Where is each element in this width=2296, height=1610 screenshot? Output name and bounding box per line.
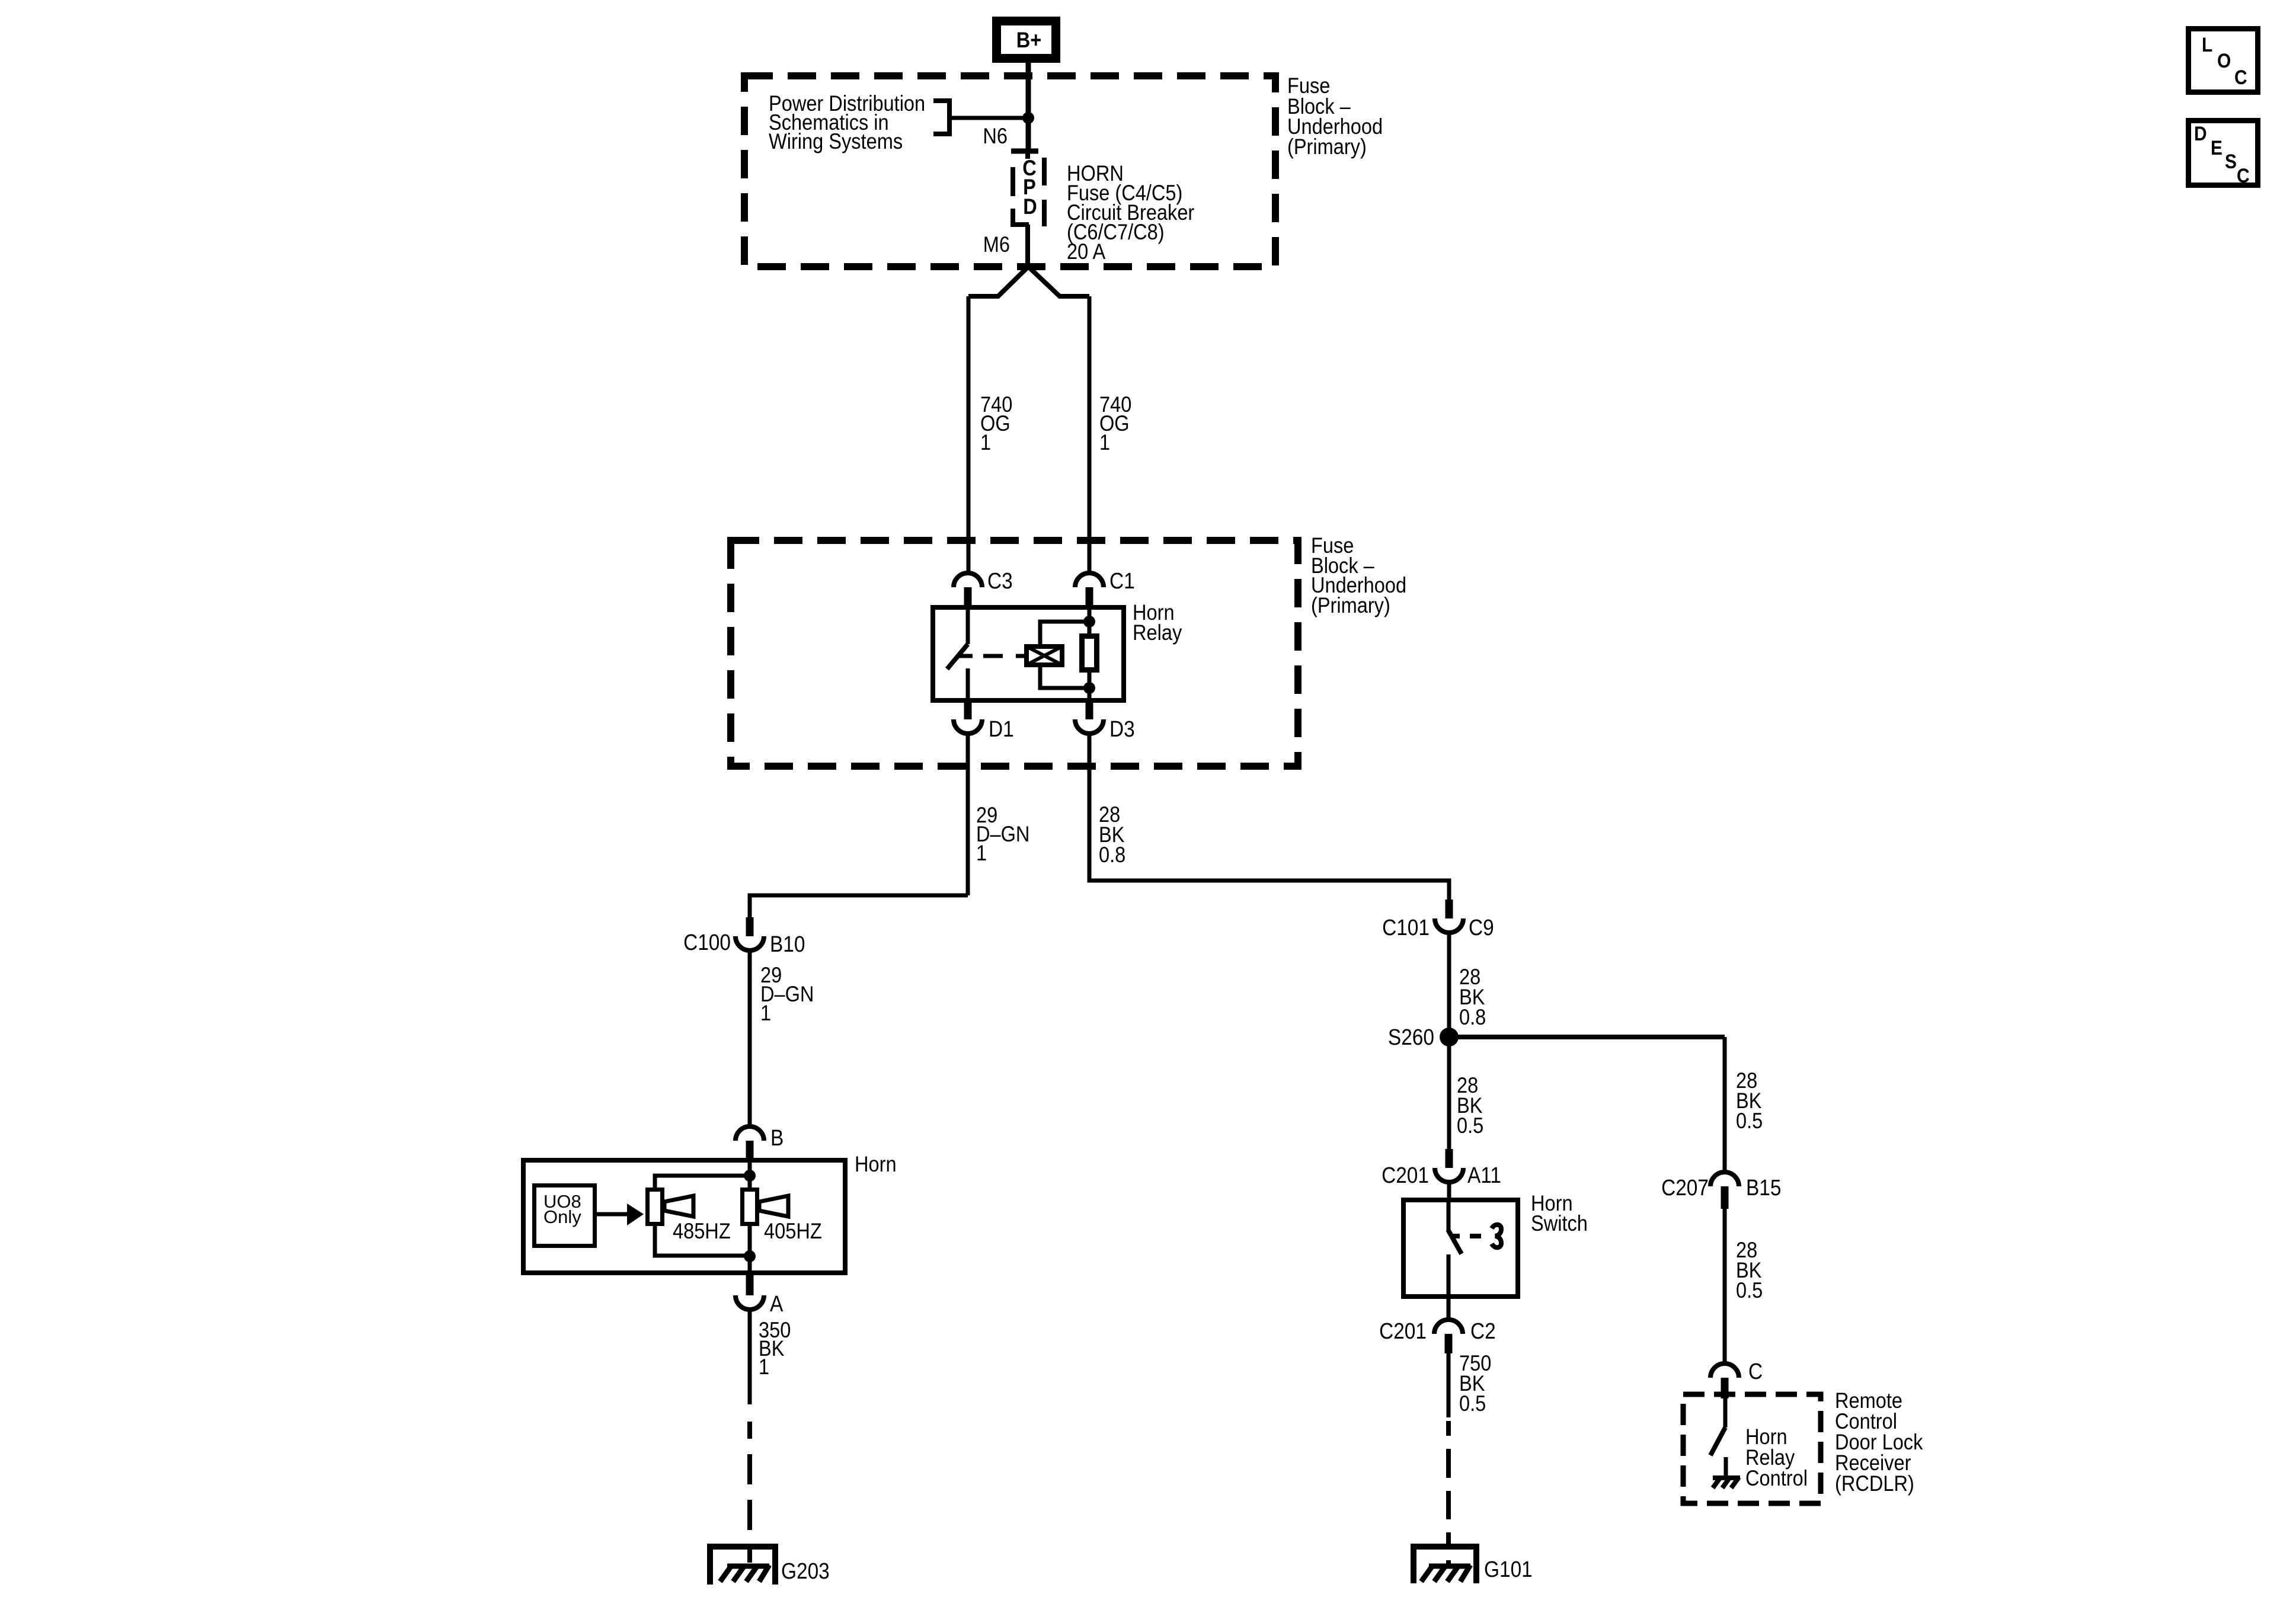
svg-text:B15: B15: [1746, 1175, 1781, 1200]
label 28 BK 0.5 below S260: [1457, 1073, 1483, 1138]
node dot horn top: [744, 1170, 756, 1182]
connector C207/B15 (arc + pin stub): [1710, 1172, 1739, 1209]
svg-text:C: C: [2234, 66, 2247, 88]
svg-text:C: C: [2237, 164, 2250, 187]
relay switch blade: [947, 644, 968, 669]
label Fuse Block Underhood (Primary) top: [1287, 73, 1383, 159]
svg-text:1: 1: [1099, 430, 1110, 454]
label Power Distribution Schematics in Wiring Systems: [769, 91, 925, 153]
svg-text:A: A: [770, 1291, 783, 1316]
svg-text:C9: C9: [1469, 915, 1494, 940]
svg-text:(Primary): (Primary): [1287, 135, 1367, 159]
RCDLR lower contact: [1724, 1457, 1728, 1477]
ground G101: [1414, 1547, 1476, 1583]
svg-text:B+: B+: [1016, 28, 1042, 52]
connector B (arc + pin stub): [736, 1126, 764, 1160]
wire V split right leg: [1028, 267, 1089, 296]
UO8 Only box: [535, 1186, 595, 1246]
horn switch linkage dashes: [1453, 1234, 1460, 1238]
svg-text:1: 1: [980, 430, 991, 454]
svg-text:G203: G203: [781, 1558, 830, 1583]
svg-text:C201: C201: [1379, 1318, 1427, 1343]
svg-text:C101: C101: [1382, 915, 1430, 940]
label 740 OG 1 right: [1099, 392, 1131, 454]
relay linkage dashes: [983, 654, 1003, 658]
wire from power-distribution bracket to junction: [949, 116, 1028, 120]
relay coil box with X: [1027, 646, 1062, 665]
RCDLR driver wire: [1723, 1397, 1728, 1427]
svg-text:D: D: [1023, 194, 1037, 219]
svg-text:N6: N6: [983, 124, 1008, 148]
arrow UO8 to 485HZ horn: [597, 1204, 644, 1225]
B+ battery feed box: [997, 21, 1056, 59]
svg-text:D: D: [2194, 122, 2207, 145]
svg-text:M6: M6: [983, 232, 1010, 257]
svg-text:A11: A11: [1467, 1163, 1501, 1188]
label 28 BK 0.5 right lower: [1736, 1238, 1763, 1302]
horn speaker icon 405: [759, 1196, 788, 1217]
svg-text:(Primary): (Primary): [1311, 593, 1390, 617]
svg-text:L: L: [2202, 33, 2212, 56]
svg-text:0.8: 0.8: [1459, 1005, 1486, 1029]
wire right 740 OG down to C1: [1088, 296, 1092, 573]
wire 405 bottom: [748, 1224, 752, 1273]
label Fuse Block Underhood (Primary) middle: [1311, 533, 1406, 617]
svg-text:1: 1: [976, 841, 987, 865]
label 350 BK 1: [759, 1318, 791, 1379]
resistor horn 485HZ: [648, 1190, 663, 1224]
wire S260 branch down to C207: [1723, 1037, 1727, 1172]
wire B into 405 resistor: [748, 1160, 752, 1189]
horn switch upper contact: [1447, 1200, 1451, 1230]
svg-text:O: O: [2217, 49, 2231, 72]
svg-text:0.5: 0.5: [1459, 1391, 1486, 1416]
svg-text:C1: C1: [1109, 568, 1135, 593]
svg-text:20 A: 20 A: [1067, 239, 1106, 264]
label 29 D-GN 1 lower: [760, 963, 814, 1025]
svg-text:0.5: 0.5: [1736, 1278, 1763, 1302]
label HORN Fuse (C4/C5) Circuit Breaker (C6/C7/C8) 20 A: [1067, 161, 1195, 264]
connector C (arc + pin stub): [1710, 1363, 1739, 1398]
relay internal wire resistor to D3: [1088, 670, 1092, 700]
bracket for Power Distribution reference: [933, 101, 949, 134]
wire 485 bottom: [655, 1224, 750, 1256]
relay coil bottom lead: [1040, 667, 1089, 688]
svg-text:E: E: [2211, 136, 2223, 159]
RCDLR switch blade: [1710, 1427, 1725, 1455]
svg-text:D1: D1: [989, 716, 1014, 741]
svg-text:D3: D3: [1109, 716, 1135, 741]
wire B+ stem down to fuse: [1026, 63, 1031, 151]
svg-text:485HZ: 485HZ: [673, 1219, 731, 1243]
label 28 BK 0.8 at C9: [1459, 965, 1486, 1029]
svg-text:C100: C100: [683, 930, 731, 955]
wire M6 down to split: [1025, 225, 1030, 268]
wire D3 down and jog right: [1089, 734, 1449, 904]
wire C9 down to S260: [1447, 933, 1451, 1149]
relay switch contact from C3: [966, 607, 970, 644]
svg-text:0.5: 0.5: [1457, 1113, 1483, 1138]
horn speaker icon 485: [664, 1196, 693, 1217]
LOC icon box: [2189, 29, 2258, 92]
svg-text:Wiring Systems: Wiring Systems: [769, 129, 903, 153]
wire A down: [748, 1310, 752, 1404]
label Horn Relay Control: [1745, 1425, 1808, 1490]
wire horn top branch: [655, 1176, 750, 1189]
connector D1 (pin stub + arc): [954, 703, 982, 734]
svg-text:Only: Only: [543, 1206, 581, 1227]
wire left 740 OG down to C3: [967, 296, 971, 573]
wire B10 down to B: [748, 950, 752, 1126]
horn switch lower contact: [1447, 1254, 1451, 1297]
node dot horn bottom: [744, 1250, 756, 1262]
connector C1 (arc + pin stub): [1075, 573, 1104, 605]
fuse block underhood (primary) dashed box top: [744, 76, 1275, 267]
svg-text:Switch: Switch: [1531, 1211, 1588, 1235]
svg-text:C207: C207: [1661, 1175, 1709, 1200]
svg-text:0.5: 0.5: [1736, 1109, 1763, 1133]
svg-text:Relay: Relay: [1133, 620, 1182, 645]
resistor horn 405HZ: [743, 1190, 757, 1224]
horn box: [523, 1160, 845, 1273]
connector A (pin stub + arc): [736, 1273, 764, 1310]
wire V split left leg: [968, 267, 1028, 296]
wire A11 into horn switch: [1447, 1182, 1451, 1200]
node S260 splice dot: [1440, 1028, 1459, 1046]
connector C101/C9 (pin stub + arc): [1435, 900, 1463, 933]
connector C100/B10 (pin stub + arc): [736, 917, 764, 950]
label 28 BK 0.8 upper: [1099, 802, 1125, 867]
ground G203: [710, 1547, 775, 1585]
label Horn Switch: [1531, 1191, 1588, 1235]
relay switch lower contact: [966, 668, 970, 700]
connector C3 (arc + pin stub): [954, 573, 982, 605]
svg-text:B10: B10: [770, 932, 805, 956]
resistor in relay: [1082, 636, 1097, 670]
node dot top of resistor branch: [1083, 616, 1095, 628]
svg-text:0.8: 0.8: [1099, 843, 1125, 867]
node dot bottom of resistor branch: [1083, 682, 1095, 694]
connector C201/A11 (pin stub + arc): [1435, 1149, 1463, 1182]
svg-text:C: C: [1748, 1359, 1763, 1384]
horn switch box: [1403, 1200, 1518, 1297]
svg-text:1: 1: [759, 1355, 769, 1379]
wire to C2: [1447, 1297, 1451, 1320]
svg-text:(RCDLR): (RCDLR): [1835, 1471, 1914, 1496]
svg-text:C2: C2: [1470, 1318, 1496, 1343]
svg-text:C201: C201: [1382, 1163, 1429, 1188]
svg-text:S260: S260: [1388, 1025, 1434, 1049]
svg-text:S: S: [2225, 150, 2237, 172]
svg-text:B: B: [770, 1125, 784, 1150]
label 740 OG 1 left: [980, 392, 1012, 454]
RCDLR internal ground: [1713, 1477, 1740, 1488]
horn switch spring symbol: [1492, 1225, 1501, 1248]
fuse HORN fuse/circuit breaker symbol: [1011, 151, 1044, 226]
relay switch tick: [957, 654, 973, 658]
label Horn Relay: [1133, 600, 1182, 645]
RCDLR dashed box: [1683, 1394, 1821, 1503]
svg-text:G101: G101: [1484, 1557, 1533, 1582]
horn switch blade: [1448, 1230, 1462, 1254]
connector C201/C2 (arc + pin stub): [1434, 1320, 1463, 1353]
wire jog left to C100: [750, 895, 968, 917]
wire C2 down: [1447, 1353, 1451, 1417]
connector D3 (pin stub + arc): [1075, 703, 1104, 734]
wire D1 down: [966, 734, 970, 895]
svg-text:Horn: Horn: [855, 1152, 897, 1176]
wire dashed to G101: [1446, 1421, 1451, 1564]
horn relay box: [933, 607, 1124, 700]
DESC icon box: [2189, 121, 2258, 187]
svg-text:C3: C3: [987, 568, 1013, 593]
svg-text:Control: Control: [1745, 1466, 1808, 1490]
label 29 D-GN 1 upper: [976, 803, 1029, 865]
wire B15 down to C: [1723, 1209, 1727, 1363]
node junction dot at N6 feed: [1022, 112, 1034, 124]
svg-text:1: 1: [760, 1001, 771, 1025]
relay coil top lead: [1040, 622, 1089, 644]
label 750 BK 0.5: [1459, 1351, 1491, 1416]
fuse block underhood (primary) dashed box middle: [731, 540, 1298, 766]
label Remote Control Door Lock Receiver (RCDLR): [1835, 1388, 1923, 1496]
label 28 BK 0.5 right upper: [1736, 1068, 1763, 1133]
wire S260 branch right: [1449, 1035, 1725, 1039]
relay internal wire C1 to resistor: [1088, 607, 1092, 636]
svg-text:405HZ: 405HZ: [764, 1219, 822, 1243]
wire dashed to G203: [747, 1422, 752, 1564]
